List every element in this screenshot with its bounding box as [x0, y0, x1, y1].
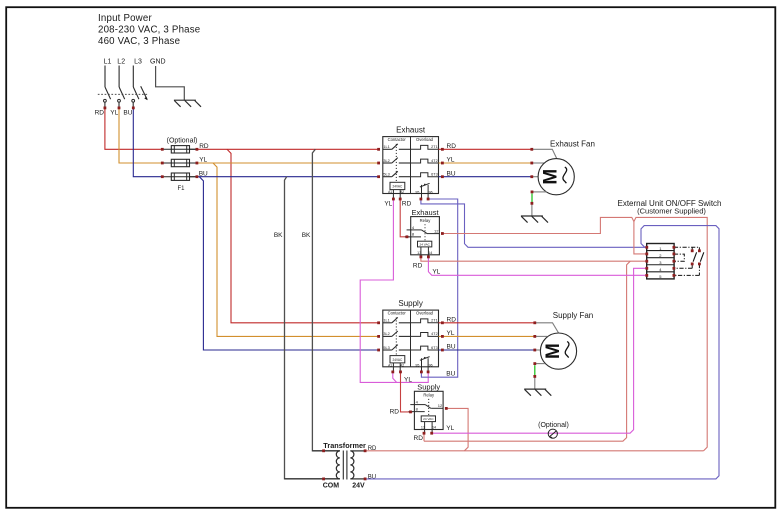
- label (Customer Supplied): [637, 206, 706, 215]
- external switch S2 blade: [700, 252, 704, 261]
- label BU exhaust fan lead: [447, 170, 456, 177]
- contactor Exhaust pole 5L3 contact: [383, 171, 411, 176]
- motor Supply Fan: [540, 333, 576, 369]
- wire YL(magenta): exhaust coil A1 down-around to supply coil A1 junction: [360, 199, 428, 382]
- svg-text:14: 14: [428, 251, 432, 255]
- wire BU: transformer secondary common run to right riser: [365, 226, 719, 479]
- relay Supply coil linkage (dotted): [428, 399, 430, 416]
- svg-text:F1: F1: [177, 186, 185, 192]
- label YL (supply overload 96 wire): [404, 376, 412, 383]
- wire RD: supply overload 2T1 to supply fan: [439, 322, 535, 324]
- overload heater 2T1: [411, 319, 439, 323]
- svg-text:A1: A1: [388, 190, 392, 194]
- svg-text:24 VAC: 24 VAC: [423, 417, 434, 421]
- label F1: [177, 186, 185, 192]
- svg-text:BK: BK: [274, 232, 283, 239]
- wire GND lead: [156, 66, 185, 100]
- wire BK: tap from RD phase to transformer primary top: [312, 149, 339, 451]
- svg-text:1L1: 1L1: [383, 319, 389, 323]
- svg-text:24VAC: 24VAC: [392, 185, 403, 189]
- wire BU: supply overload 6T3 to supply fan: [439, 349, 535, 351]
- svg-text:Overload: Overload: [416, 310, 434, 315]
- svg-text:BU: BU: [447, 170, 456, 177]
- svg-text:Contactor: Contactor: [388, 137, 407, 142]
- label YL (exhaust contactor coil A1 wire): [384, 200, 392, 207]
- label Exhaust Fan: [550, 139, 595, 148]
- svg-text:95: 95: [415, 364, 419, 368]
- svg-text:YL: YL: [384, 200, 392, 207]
- wire YL: fuse to Exhaust contactor 3L2: [197, 162, 379, 164]
- overload heater 2T1: [411, 145, 439, 149]
- label External Unit ON/OFF Switch: [617, 199, 721, 208]
- svg-text:Relay: Relay: [420, 218, 432, 223]
- label RD exhaust fan lead: [447, 143, 457, 150]
- svg-text:Supply: Supply: [398, 299, 422, 308]
- svg-text:208-230 VAC, 3 Phase: 208-230 VAC, 3 Phase: [98, 25, 200, 36]
- svg-text:RD: RD: [402, 200, 412, 207]
- external switch S1 blade: [693, 252, 697, 261]
- svg-text:YL: YL: [110, 109, 118, 116]
- wire RD: exhaust relay pin13 to ext-switch terminal 3: [421, 257, 647, 261]
- wire YL branch to Supply contactor 3L2: [213, 163, 379, 336]
- customer jumper: terminals 2-3 (dash-dot): [674, 254, 684, 261]
- node L2: [117, 58, 125, 65]
- wire YL(magenta): supply relay pin14 to ext-switch terminal 4: [432, 268, 647, 433]
- svg-text:Supply: Supply: [417, 383, 440, 392]
- label YL exhaust fan lead: [447, 157, 455, 164]
- overload heater 4T2: [411, 159, 439, 163]
- svg-text:(Customer Supplied): (Customer Supplied): [637, 206, 706, 215]
- overload relay Exhaust NC contact 95-96: [415, 183, 432, 194]
- svg-text:BU: BU: [123, 109, 132, 116]
- svg-text:RD: RD: [414, 435, 424, 442]
- label Supply Fan: [553, 311, 593, 320]
- note: input power text: [98, 13, 200, 47]
- wire RD: exhaust overload 2T1 to exhaust fan: [439, 148, 532, 150]
- wire BU branch to Supply contactor 5L3: [199, 177, 378, 350]
- svg-text:YL: YL: [446, 425, 454, 432]
- contactor Exhaust coil 24VAC: [388, 182, 405, 194]
- fuse F1-2: [162, 159, 197, 166]
- wire BK: tap from BU phase to transformer primary bottom: [285, 177, 340, 479]
- wire BU: disconnect to fuse F1-3: [133, 108, 162, 177]
- label: contactor Exhaust title: [396, 125, 426, 134]
- svg-text:YL: YL: [447, 330, 455, 337]
- fuse F1-3: [162, 173, 197, 180]
- svg-text:6T3: 6T3: [431, 173, 438, 177]
- disconnect operating handle: [141, 86, 148, 100]
- svg-text:YL: YL: [432, 269, 440, 276]
- wire YL: exhaust overload 4T2 to exhaust fan: [439, 162, 532, 164]
- svg-text:A2: A2: [400, 363, 404, 367]
- svg-text:BK: BK: [302, 232, 311, 239]
- ground symbol (exhaust fan): [521, 216, 548, 223]
- wire YL(magenta): exhaust relay pin14 to ext-switch terminal 5: [428, 257, 646, 275]
- wire exhaust fan ground lead with green bond: [532, 192, 547, 216]
- svg-text:RD: RD: [390, 408, 400, 415]
- customer wiring: switch2 bottom to terminal 5 (dash-dot): [674, 264, 700, 276]
- svg-text:L2: L2: [117, 58, 125, 65]
- svg-text:RD: RD: [447, 317, 457, 324]
- ground symbol (input power earth): [174, 100, 201, 107]
- wire RD: transformer secondary hot run: [365, 450, 703, 452]
- svg-text:RD: RD: [413, 263, 423, 270]
- contactor Supply pole 3L2 contact: [383, 331, 411, 336]
- label BU after fuse: [199, 170, 208, 177]
- svg-text:95: 95: [415, 190, 419, 194]
- transformer T1: [285, 451, 366, 480]
- svg-text:1L1: 1L1: [383, 145, 389, 149]
- label RD (transformer 24V hot): [368, 446, 377, 452]
- wire RD: fuse to Exhaust contactor 1L1: [197, 148, 379, 150]
- label (Optional) for fuses F1: [167, 137, 198, 144]
- label RD (exhaust contactor coil A2 wire): [402, 200, 412, 207]
- svg-text:Relay: Relay: [423, 393, 435, 398]
- terminal block TB (external switch): [647, 244, 674, 280]
- customer wiring: switch1 bottom to terminal 4 (dash-dot): [674, 264, 692, 268]
- contactor Exhaust: enclosure: [383, 137, 439, 194]
- label 24V: [352, 483, 365, 490]
- label Transformer: [323, 441, 366, 450]
- label RD (supply relay pin13 wire): [414, 435, 424, 442]
- svg-text:A2: A2: [400, 190, 404, 194]
- svg-text:Transformer: Transformer: [323, 441, 366, 450]
- label: contactor Supply title: [398, 299, 422, 308]
- label YL supply fan lead: [447, 330, 455, 337]
- overload heater 6T3: [411, 346, 439, 350]
- label RD (supply coil A2 wire): [390, 408, 400, 415]
- wire RD: exhaust relay pin12 to ext-switch terminal 2 / transformer RD riser: [442, 217, 707, 450]
- svg-text:3L2: 3L2: [383, 332, 389, 336]
- relay Exhaust coil 24 VAC: [417, 241, 432, 255]
- disconnect switch pole L3: [132, 66, 139, 107]
- label BU (phase L3 wire): [123, 109, 132, 116]
- label YL (supply relay pin14 wire): [446, 425, 454, 432]
- wire BU: fuse to Exhaust contactor 5L3: [197, 176, 379, 178]
- contactor Exhaust coil/overload pin stubs: [393, 194, 428, 199]
- contactor Supply coil/overload pin stubs: [393, 367, 428, 372]
- disconnect switch pole L2: [118, 66, 125, 107]
- label BU supply fan lead: [447, 344, 456, 351]
- wire supply fan ground lead with green bond: [535, 364, 545, 389]
- svg-text:12: 12: [438, 403, 443, 408]
- svg-text:M: M: [541, 169, 562, 185]
- svg-text:4T2: 4T2: [431, 332, 438, 336]
- contactor Supply coil linkage (dotted): [395, 317, 397, 355]
- svg-text:24V: 24V: [352, 483, 365, 490]
- label RD supply fan lead: [447, 317, 457, 324]
- svg-text:6T3: 6T3: [431, 346, 438, 350]
- svg-text:Exhaust: Exhaust: [396, 125, 426, 134]
- svg-text:2T1: 2T1: [431, 145, 438, 149]
- customer wiring: terminal 1 to switch tops (dash-dot): [674, 247, 700, 251]
- svg-text:Exhaust: Exhaust: [411, 208, 439, 217]
- node L3: [134, 58, 142, 65]
- wire RD: supply relay pin13 (joins terminal-3 run): [423, 433, 425, 441]
- node GND: [150, 58, 166, 65]
- svg-text:24 VAC: 24 VAC: [419, 242, 430, 246]
- overload heater 6T3: [411, 173, 439, 177]
- svg-text:YL: YL: [447, 157, 455, 164]
- svg-text:96: 96: [429, 364, 433, 368]
- wire RD: exhaust coil A2 to exhaust relay pin 8: [400, 199, 409, 237]
- relay Supply pin 13/14 stubs: [425, 430, 433, 433]
- supply fan motor lead wires: [535, 323, 559, 350]
- wire BU(24V): exhaust overload 96 down to supply overload 95: [421, 199, 457, 377]
- contactor Supply pole 1L1 contact: [383, 317, 411, 322]
- svg-text:96: 96: [429, 190, 433, 194]
- label RD (phase L1 wire): [95, 109, 105, 116]
- relay Supply coil 24 VAC: [421, 416, 436, 430]
- wire YL(magenta): supply coil A1 tap to magenta run: [393, 372, 397, 383]
- svg-text:5L3: 5L3: [383, 346, 389, 350]
- disconnect switch pole L1: [104, 66, 111, 107]
- svg-text:12: 12: [434, 229, 439, 234]
- svg-text:Exhaust Fan: Exhaust Fan: [550, 139, 595, 148]
- label (Optional) for alarm device: [538, 422, 569, 429]
- node L1: [104, 58, 112, 65]
- svg-text:M: M: [543, 343, 564, 359]
- exhaust fan motor lead wires: [532, 149, 557, 176]
- label YL (exhaust relay pin14 wire): [432, 269, 440, 276]
- relay Exhaust: enclosure: [411, 208, 440, 255]
- label YL after fuse: [199, 157, 207, 164]
- overload heater 4T2: [411, 332, 439, 336]
- svg-text:(Optional): (Optional): [167, 137, 198, 144]
- label RD after fuse: [199, 143, 209, 150]
- svg-text:14: 14: [432, 426, 436, 430]
- svg-text:2T1: 2T1: [431, 319, 438, 323]
- overload relay Supply NC contact 95-96: [415, 357, 432, 368]
- fuse F1-1: [162, 146, 197, 153]
- svg-text:A1: A1: [388, 363, 392, 367]
- svg-text:4T2: 4T2: [431, 159, 438, 163]
- contactor Exhaust pole 3L2 contact: [383, 158, 411, 163]
- svg-text:3L2: 3L2: [383, 159, 389, 163]
- svg-text:5L3: 5L3: [383, 173, 389, 177]
- label BU (transformer 24V common): [368, 474, 376, 480]
- wire RD: disconnect to fuse F1-1: [105, 108, 162, 149]
- svg-text:13: 13: [417, 251, 421, 255]
- svg-text:Input Power: Input Power: [98, 13, 152, 24]
- svg-text:L3: L3: [134, 58, 142, 65]
- contactor Supply pole 5L3 contact: [383, 345, 411, 350]
- disconnect mechanical linkage (dashed): [98, 93, 148, 95]
- svg-text:YL: YL: [404, 376, 412, 383]
- relay Exhaust coil linkage (dotted): [424, 224, 426, 241]
- svg-text:(Optional): (Optional): [538, 422, 569, 429]
- svg-text:BU: BU: [447, 344, 456, 351]
- relay Supply contact (pins 4/8/12): [409, 400, 444, 412]
- wire RD: supply coil A2 to supply relay pin 8: [401, 372, 413, 412]
- relay Exhaust pin 13/14 stubs: [421, 255, 429, 258]
- motor Exhaust Fan: [538, 159, 574, 195]
- svg-text:L1: L1: [104, 58, 112, 65]
- svg-text:BU: BU: [446, 371, 455, 378]
- wire YL: supply overload 4T2 to supply fan: [439, 335, 535, 337]
- wire YL: disconnect to fuse F1-2: [119, 108, 162, 163]
- relay Supply: enclosure: [414, 383, 443, 430]
- svg-text:Contactor: Contactor: [388, 310, 407, 315]
- label BK (right black wire): [302, 232, 311, 239]
- svg-text:24VAC: 24VAC: [392, 358, 403, 362]
- label COM: [323, 483, 340, 490]
- svg-text:460 VAC, 3 Phase: 460 VAC, 3 Phase: [98, 36, 180, 47]
- optional device symbol on pin14 wire: [548, 429, 557, 438]
- svg-text:COM: COM: [323, 483, 340, 490]
- svg-text:RD: RD: [95, 109, 105, 116]
- label BK (left black wire): [274, 232, 283, 239]
- label RD (exhaust relay pin13 wire): [413, 263, 423, 270]
- svg-text:Overload: Overload: [416, 137, 434, 142]
- svg-text:RD: RD: [447, 143, 457, 150]
- wire RD branch to Supply contactor 1L1: [227, 149, 379, 322]
- contactor Supply coil 24VAC: [388, 356, 405, 368]
- svg-text:GND: GND: [150, 58, 166, 65]
- ground symbol (supply fan): [524, 389, 551, 396]
- svg-text:Supply Fan: Supply Fan: [553, 311, 593, 320]
- wire RD: supply relay pin12 down to transformer RD run: [446, 408, 468, 450]
- contactor Exhaust pole 1L1 contact: [383, 144, 411, 149]
- contactor Supply: enclosure: [383, 310, 439, 367]
- wire RD branch: to ext-switch terminal 2: [634, 222, 647, 254]
- relay Exhaust contact (pins 4/8/12): [405, 225, 440, 237]
- contactor Exhaust coil linkage (dotted): [395, 144, 397, 182]
- svg-text:13: 13: [421, 426, 425, 430]
- wire BU: exhaust overload 6T3 to exhaust fan: [439, 176, 532, 178]
- wire RD branch: terminal 3 down to supply relay pin13 run: [424, 261, 630, 441]
- label YL (phase L2 wire): [110, 109, 118, 116]
- wire BU(24V): exhaust overload 95 to external switch terminal 1: [421, 199, 647, 247]
- label BU (supply overload 95 wire): [446, 371, 455, 378]
